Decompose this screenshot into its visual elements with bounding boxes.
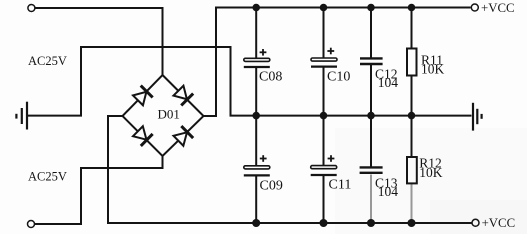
svg-text:104: 104: [378, 75, 399, 90]
svg-text:AC25V: AC25V: [28, 54, 67, 68]
svg-text:D01: D01: [158, 107, 180, 122]
svg-text:104: 104: [378, 184, 399, 199]
svg-text:+VCC: +VCC: [481, 1, 515, 15]
svg-text:C08: C08: [259, 70, 282, 85]
svg-text:C11: C11: [329, 177, 352, 192]
svg-text:10K: 10K: [419, 165, 443, 180]
svg-text:C09: C09: [260, 178, 283, 193]
svg-text:AC25V: AC25V: [28, 170, 67, 184]
svg-text:10K: 10K: [421, 62, 445, 77]
svg-text:+VCC: +VCC: [482, 216, 516, 230]
svg-text:C10: C10: [327, 70, 350, 85]
